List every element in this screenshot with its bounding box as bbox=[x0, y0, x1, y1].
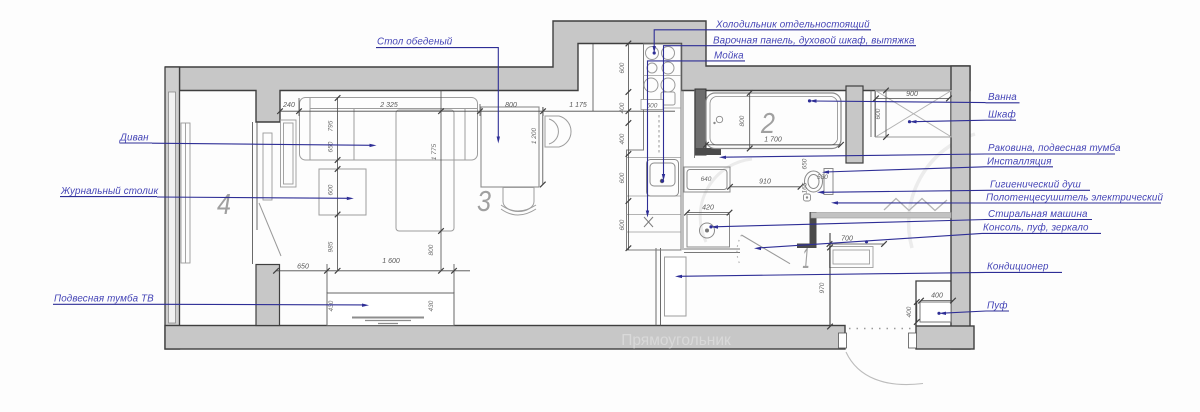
kitchen dim ticks bbox=[626, 41, 632, 251]
left wall bbox=[165, 67, 180, 349]
svg-text:970: 970 bbox=[819, 282, 826, 293]
svg-text:4: 4 bbox=[217, 189, 231, 221]
bathroom bottom-left stub bbox=[695, 148, 721, 155]
svg-text:600: 600 bbox=[875, 108, 882, 119]
toilet bbox=[805, 169, 834, 195]
coffee table bbox=[319, 169, 366, 215]
living side shelf bbox=[281, 120, 297, 187]
dining dim ticks bbox=[540, 182, 546, 188]
room4 door leaf bbox=[259, 203, 281, 256]
kitchen counter dividers bbox=[627, 76, 682, 233]
svg-text:900: 900 bbox=[906, 91, 918, 98]
sofa chaise bbox=[396, 110, 454, 231]
bottom wall bbox=[165, 326, 845, 350]
label dining table bbox=[376, 37, 500, 144]
svg-text:600: 600 bbox=[619, 172, 626, 183]
bath tub bbox=[706, 93, 841, 149]
svg-text:600: 600 bbox=[328, 184, 335, 195]
svg-text:Холодильник отдельностоящий: Холодильник отдельностоящий bbox=[715, 20, 870, 31]
svg-text:600: 600 bbox=[619, 62, 626, 73]
svg-text:Прямоугольник: Прямоугольник bbox=[621, 332, 731, 349]
label coffee table bbox=[60, 186, 354, 200]
label hygienic shower bbox=[817, 180, 1090, 194]
bathroom right wall bbox=[846, 86, 863, 163]
entrance door jamb right bbox=[909, 333, 917, 348]
svg-text:240: 240 bbox=[282, 102, 295, 109]
svg-text:Кондиционер: Кондиционер bbox=[987, 262, 1049, 273]
vanity sink bbox=[684, 167, 730, 192]
svg-text:430: 430 bbox=[428, 300, 435, 311]
towel dryer zigzag bbox=[884, 199, 947, 211]
right wall bbox=[951, 66, 970, 349]
svg-text:Полотенцесушитель электрически: Полотенцесушитель электрический bbox=[986, 192, 1163, 203]
svg-text:430: 430 bbox=[328, 300, 335, 311]
dining dim column bbox=[542, 107, 544, 185]
dining table bbox=[481, 107, 539, 187]
sofa bbox=[300, 98, 478, 161]
vent cross symbol bbox=[644, 217, 653, 227]
TV set plate bbox=[352, 318, 424, 324]
svg-text:400: 400 bbox=[619, 133, 626, 144]
left wall window lines bbox=[169, 92, 176, 323]
svg-text:985: 985 bbox=[328, 241, 335, 252]
bath dim 1700 bbox=[703, 137, 844, 148]
svg-text:1 775: 1 775 bbox=[431, 143, 438, 160]
svg-text:Варочная панель, духовой шкаф,: Варочная панель, духовой шкаф, вытяжка bbox=[713, 35, 915, 46]
wardrobe dim 600 bbox=[875, 88, 889, 140]
chaise dim ticks bbox=[438, 108, 444, 273]
outer wall top band with kitchen bump bbox=[165, 21, 970, 122]
pouf square bbox=[920, 302, 951, 322]
svg-text:2 325: 2 325 bbox=[379, 102, 398, 109]
label wardrobe bbox=[908, 109, 1016, 123]
label sofa bbox=[119, 133, 377, 148]
hall console bbox=[830, 247, 874, 268]
entrance niche outline bbox=[916, 281, 951, 326]
entrance door jamb left bbox=[839, 333, 847, 348]
bathroom lower wall bbox=[684, 249, 740, 253]
dim 910 bbox=[727, 179, 803, 190]
svg-text:640: 640 bbox=[701, 176, 712, 183]
wardrobe shkaf bbox=[876, 91, 952, 138]
label pouf bbox=[937, 300, 1009, 315]
svg-text:420: 420 bbox=[702, 205, 714, 212]
dim row top ticks bbox=[277, 108, 631, 114]
svg-text:1 600: 1 600 bbox=[382, 258, 400, 265]
room4 partition lines bbox=[253, 122, 258, 264]
svg-text:1: 1 bbox=[803, 243, 810, 275]
TV dim row bbox=[276, 264, 470, 293]
chaise dim column bbox=[440, 90, 442, 271]
watermark circle arc bbox=[909, 134, 975, 248]
sofa dim ticks bbox=[335, 95, 341, 273]
svg-text:530: 530 bbox=[817, 174, 828, 181]
bath dim 800 bbox=[739, 90, 753, 151]
kitchen sink unit bbox=[647, 160, 679, 197]
svg-text:1 175: 1 175 bbox=[569, 102, 587, 109]
hob burners bbox=[646, 47, 675, 75]
watermark small arc bbox=[700, 159, 752, 242]
svg-text:400: 400 bbox=[931, 293, 943, 300]
entrance door arc bbox=[846, 352, 923, 385]
bathroom left wall bbox=[695, 89, 706, 155]
room4 left wardrobe bbox=[181, 123, 190, 263]
label bath bbox=[808, 92, 1020, 103]
label washing machine bbox=[709, 209, 1092, 229]
dining chair right bbox=[545, 116, 571, 147]
label washbasin cabinet bbox=[719, 143, 1121, 159]
svg-text:Мойка: Мойка bbox=[714, 50, 744, 61]
svg-text:2: 2 bbox=[760, 108, 775, 140]
svg-text:400: 400 bbox=[619, 102, 626, 113]
label console pouf mirror bbox=[754, 223, 1101, 251]
svg-text:Раковина, подвесная тумба: Раковина, подвесная тумба bbox=[988, 143, 1121, 154]
label installation bbox=[822, 156, 1053, 174]
dim 420 bbox=[684, 205, 732, 216]
svg-text:165: 165 bbox=[802, 182, 809, 193]
label towel dryer bbox=[831, 192, 1163, 204]
svg-text:800: 800 bbox=[428, 244, 435, 255]
svg-text:400: 400 bbox=[906, 306, 913, 317]
svg-text:Инсталляция: Инсталляция bbox=[987, 156, 1052, 167]
dim 700 bbox=[827, 236, 887, 247]
svg-text:800: 800 bbox=[739, 115, 746, 126]
svg-text:1 200: 1 200 bbox=[531, 127, 538, 144]
svg-text:800: 800 bbox=[505, 102, 517, 109]
svg-text:3: 3 bbox=[477, 186, 491, 218]
svg-text:Диван: Диван bbox=[119, 133, 149, 144]
svg-text:Стол обеденый: Стол обеденый bbox=[377, 37, 453, 48]
label sink bbox=[646, 50, 745, 217]
label fridge bbox=[653, 20, 872, 55]
washing machine bbox=[687, 215, 730, 248]
bathroom door arc dotted bbox=[737, 235, 742, 265]
TV dim ticks bbox=[273, 268, 457, 274]
svg-text:650: 650 bbox=[802, 158, 809, 169]
svg-text:Консоль, пуф, зеркало: Консоль, пуф, зеркало bbox=[983, 223, 1089, 234]
TV cabinet box bbox=[327, 293, 454, 326]
svg-text:795: 795 bbox=[328, 120, 335, 131]
shaft lines right of bath wall bbox=[871, 91, 875, 138]
bathroom door leaf bbox=[742, 235, 791, 264]
svg-text:Ванна: Ванна bbox=[988, 92, 1017, 103]
svg-text:Шкаф: Шкаф bbox=[988, 109, 1016, 120]
toilet partition L wall bbox=[797, 212, 817, 248]
svg-text:650: 650 bbox=[297, 264, 309, 271]
svg-text:Стиральная машина: Стиральная машина bbox=[988, 209, 1088, 220]
svg-text:Журнальный столик: Журнальный столик bbox=[60, 186, 158, 197]
room4 tall cabinet bbox=[263, 133, 272, 200]
label hob oven hood bbox=[661, 35, 916, 182]
shaft line 2 bbox=[694, 91, 696, 159]
label TV cabinet bbox=[53, 293, 369, 307]
label air conditioner bbox=[675, 262, 1062, 279]
svg-text:650: 650 bbox=[328, 141, 335, 152]
sofa dim column bbox=[337, 98, 339, 271]
hygienic shower fixture bbox=[804, 194, 811, 201]
entrance opening dashed line bbox=[849, 328, 911, 330]
wardrobe dim 900 bbox=[873, 91, 952, 101]
kitchen dim 600 boxed bbox=[641, 100, 663, 110]
svg-text:600: 600 bbox=[647, 102, 658, 109]
svg-text:600: 600 bbox=[619, 219, 626, 230]
pouf dim 400h bbox=[918, 293, 956, 304]
shaft line kitchen-bath bbox=[682, 91, 684, 251]
svg-text:910: 910 bbox=[759, 179, 771, 186]
svg-text:Пуф: Пуф bbox=[987, 300, 1008, 311]
kitchen dashed cabinet line bbox=[658, 115, 660, 155]
room4 partition bottom pier bbox=[256, 265, 280, 326]
hall-kitchen partition bbox=[656, 248, 661, 326]
oven circles bbox=[644, 78, 675, 105]
dim 970 bbox=[819, 233, 833, 329]
dim row top line bbox=[280, 44, 675, 116]
kitchen dim column bbox=[627, 44, 629, 251]
kitchen counter outline bbox=[627, 44, 682, 250]
svg-text:Подвесная тумба ТВ: Подвесная тумба ТВ bbox=[54, 293, 154, 304]
svg-text:Гигиенический душ: Гигиенический душ bbox=[990, 180, 1081, 191]
console band wall bbox=[811, 213, 951, 219]
AC unit bbox=[665, 257, 687, 316]
dining chair bottom bbox=[501, 188, 536, 216]
pouf dim 400v bbox=[906, 299, 920, 325]
bottom-right corner wall block bbox=[916, 326, 974, 349]
